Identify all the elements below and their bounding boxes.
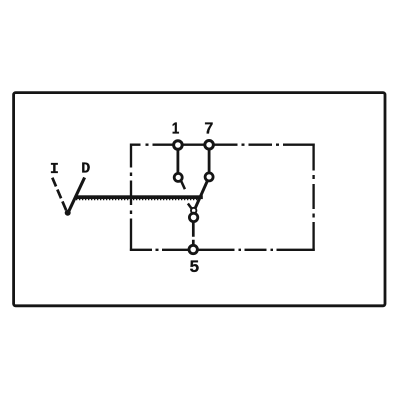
lever dashed position I stroke (52, 178, 66, 211)
contact circle under terminal 7 (205, 173, 213, 181)
dashed alternative blade segment upper (from contact 1) (181, 181, 185, 190)
svg-text:1: 1 (172, 121, 180, 138)
actuator bar (75, 195, 203, 199)
actuator bar serrated underside (76, 199, 202, 201)
dashed alternative blade segment lower (to pivot) (188, 204, 192, 210)
pole circle (189, 213, 197, 221)
terminal 7 circle (205, 141, 214, 150)
outer border frame (14, 93, 385, 306)
terminal 5 circle (189, 245, 197, 253)
enclosure dashed box bottom edge (130, 249, 315, 251)
enclosure dashed box left edge (130, 144, 132, 251)
svg-text:7: 7 (204, 121, 213, 138)
enclosure dashed box right edge (312, 144, 314, 251)
contact circle under terminal 1 (174, 173, 182, 181)
blade wire from contact 7 to pivot (195, 181, 207, 209)
wire stem from terminal 1 to its contact (176, 147, 179, 174)
enclosure dashed box top edge (130, 144, 315, 146)
svg-text:I: I (50, 161, 59, 178)
wire stem from terminal 7 to its contact (208, 147, 211, 174)
lever tip dot (65, 210, 71, 216)
pivot small circle (191, 208, 196, 213)
svg-text:D: D (81, 161, 90, 178)
wire from pole circle down to terminal 5 (192, 222, 195, 246)
svg-text:5: 5 (190, 257, 199, 276)
terminal 1 circle (174, 141, 183, 150)
lever solid position 0 stroke (67, 178, 84, 215)
